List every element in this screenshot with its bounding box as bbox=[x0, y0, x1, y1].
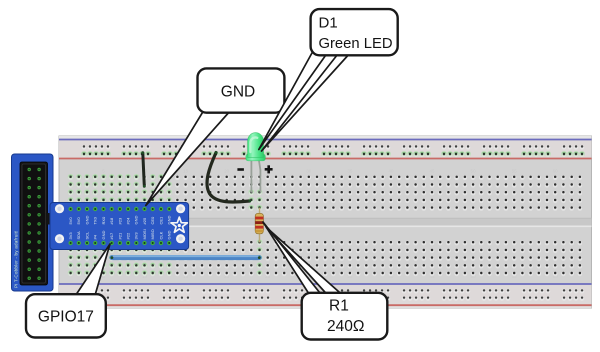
svg-text:#25: #25 bbox=[142, 217, 147, 224]
svg-text:#18: #18 bbox=[109, 217, 114, 224]
svg-text:45: 45 bbox=[429, 169, 435, 174]
svg-text:CE1: CE1 bbox=[158, 216, 163, 225]
svg-text:Pi T-Cobbler - by adafruit!: Pi T-Cobbler - by adafruit! bbox=[14, 230, 19, 288]
svg-text:3V3: 3V3 bbox=[68, 232, 73, 240]
svg-text:MOSI: MOSI bbox=[142, 229, 147, 239]
svg-text:30: 30 bbox=[306, 169, 312, 174]
svg-text:SDA: SDA bbox=[76, 231, 81, 240]
svg-text:60: 60 bbox=[553, 169, 559, 174]
svg-text:R1: R1 bbox=[329, 298, 349, 315]
svg-text:D1: D1 bbox=[319, 15, 338, 32]
svg-text:5V0: 5V0 bbox=[68, 217, 73, 225]
svg-text:#23: #23 bbox=[117, 217, 122, 224]
svg-text:RX0: RX0 bbox=[101, 216, 106, 225]
svg-text:GND: GND bbox=[167, 216, 172, 225]
svg-text:Green LED: Green LED bbox=[319, 36, 393, 52]
svg-text:5: 5 bbox=[102, 169, 105, 174]
svg-text:40: 40 bbox=[388, 169, 394, 174]
svg-text:55: 55 bbox=[512, 169, 518, 174]
svg-text:SCL: SCL bbox=[84, 231, 89, 240]
svg-text:TX0: TX0 bbox=[93, 216, 98, 224]
svg-text:CE0: CE0 bbox=[150, 216, 155, 225]
svg-text:20: 20 bbox=[224, 169, 230, 174]
svg-text:GND: GND bbox=[167, 231, 172, 240]
svg-text:3V3: 3V3 bbox=[134, 232, 139, 240]
svg-text:GND: GND bbox=[134, 216, 139, 225]
svg-text:5V0: 5V0 bbox=[76, 217, 81, 225]
svg-text:#24: #24 bbox=[126, 217, 131, 224]
svg-text:CLK: CLK bbox=[158, 231, 163, 239]
svg-text:15: 15 bbox=[183, 169, 189, 174]
svg-text:240Ω: 240Ω bbox=[327, 318, 364, 335]
svg-text:GND: GND bbox=[101, 231, 106, 240]
svg-text:#22: #22 bbox=[126, 232, 131, 239]
svg-text:GND: GND bbox=[221, 84, 255, 101]
svg-text:#4: #4 bbox=[93, 234, 98, 239]
svg-text:#21: #21 bbox=[117, 232, 122, 239]
svg-text:GPIO17: GPIO17 bbox=[38, 309, 94, 326]
svg-text:MISO: MISO bbox=[150, 229, 155, 239]
svg-text:GND: GND bbox=[84, 216, 89, 225]
svg-text:#17: #17 bbox=[109, 232, 114, 239]
svg-text:35: 35 bbox=[347, 169, 353, 174]
svg-text:50: 50 bbox=[471, 169, 477, 174]
